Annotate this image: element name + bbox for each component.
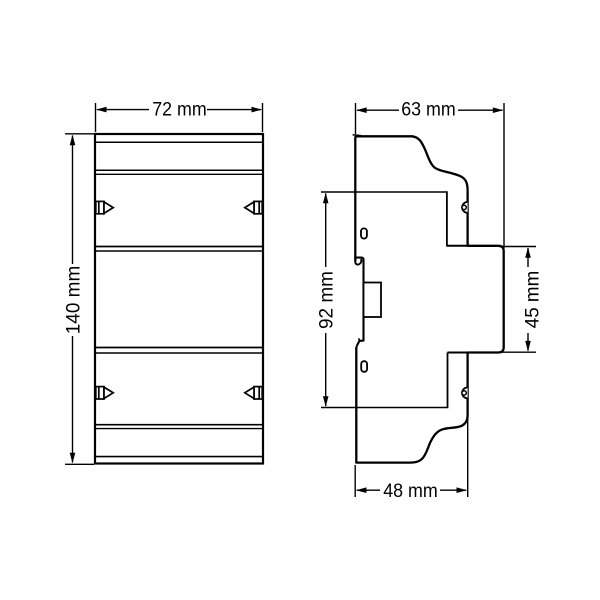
latch barb spur — [359, 338, 360, 341]
lower slot on left wall — [361, 361, 367, 372]
DIN-rail tab rectangle on latch — [364, 283, 382, 318]
140mm arrow bottom — [70, 453, 76, 464]
front view horizontal line y=170 — [95, 169, 263, 171]
svg-text:72 mm: 72 mm — [152, 100, 207, 121]
lower screw half-round — [462, 387, 467, 398]
upper-right DIN clip — [245, 201, 262, 213]
svg-text:45 mm: 45 mm — [523, 271, 544, 329]
upper screw inner circle — [462, 205, 466, 209]
front view horizontal line y=353 — [95, 352, 263, 354]
48mm arrow right — [457, 487, 468, 493]
48mm dimension line left segment — [357, 489, 380, 491]
72mm arrow left — [96, 107, 107, 113]
92mm dimension line top segment — [325, 194, 327, 268]
45mm dimension line top segment — [527, 248, 529, 267]
inner recess bottom vertical — [447, 353, 449, 409]
45mm dimension line bottom segment — [527, 333, 529, 351]
140mm arrow top — [70, 135, 76, 146]
latch step and body — [354, 258, 363, 347]
front view horizontal line y=246 — [95, 246, 263, 248]
front view horizontal line y=424.5 — [95, 424, 263, 426]
lower-left DIN clip — [96, 387, 113, 399]
92mm dimension line bottom segment — [325, 333, 327, 406]
63mm extension line left — [355, 103, 357, 134]
72mm arrow right — [252, 107, 263, 113]
45mm arrow top — [525, 247, 531, 257]
72mm extension line right — [262, 103, 264, 132]
front view horizontal line y=174 — [95, 173, 263, 175]
shoulder line at y=246 — [447, 245, 470, 247]
front view outline — [95, 134, 263, 464]
140mm extension line bottom — [65, 463, 94, 465]
45mm extension line top — [499, 246, 536, 248]
140mm extension line top — [65, 133, 94, 135]
front view horizontal line y=251 — [95, 250, 263, 252]
front view horizontal line y=347 — [95, 347, 263, 349]
upper screw half-round — [462, 202, 467, 213]
140mm dimension line bottom segment — [72, 336, 74, 463]
63mm dimension line left segment — [357, 109, 399, 111]
svg-text:63 mm: 63 mm — [401, 100, 456, 121]
72mm dimension line right segment — [207, 109, 261, 111]
63mm arrow left — [356, 107, 367, 113]
63mm extension line right — [503, 103, 505, 248]
front view horizontal line y=428.5 — [95, 428, 263, 430]
svg-text:48 mm: 48 mm — [383, 481, 438, 502]
48mm arrow left — [356, 487, 367, 493]
72mm extension line left — [95, 103, 97, 132]
upper-left DIN clip — [96, 201, 113, 213]
45mm arrow bottom — [525, 341, 531, 352]
front view horizontal line y=142 — [95, 141, 263, 143]
48mm extension line left — [354, 465, 356, 497]
svg-text:92 mm: 92 mm — [316, 271, 337, 329]
lower screw inner circle — [462, 391, 466, 395]
45mm extension line bottom — [499, 351, 536, 353]
140mm dimension line top segment — [72, 136, 74, 265]
92mm arrow top — [323, 193, 329, 204]
lower-right DIN clip — [245, 387, 262, 399]
side view outer contour — [355, 136, 503, 462]
upper slot on left wall — [361, 228, 367, 238]
inner recess top vertical — [446, 191, 448, 246]
92mm arrow bottom — [323, 396, 329, 407]
top edge lip detail — [353, 134, 361, 137]
48mm extension line right — [467, 419, 469, 497]
svg-text:140 mm: 140 mm — [63, 266, 84, 335]
inner recess bottom line — [321, 407, 448, 409]
63mm dimension line right segment — [458, 109, 503, 111]
front view horizontal line y=456 — [95, 456, 263, 458]
48mm dimension line right segment — [440, 489, 466, 491]
latch hook curl on left edge — [355, 259, 361, 265]
inner recess top line — [321, 191, 447, 193]
63mm arrow right — [493, 107, 504, 113]
72mm dimension line left segment — [97, 109, 149, 111]
shoulder line at y=352.5 — [448, 352, 471, 354]
